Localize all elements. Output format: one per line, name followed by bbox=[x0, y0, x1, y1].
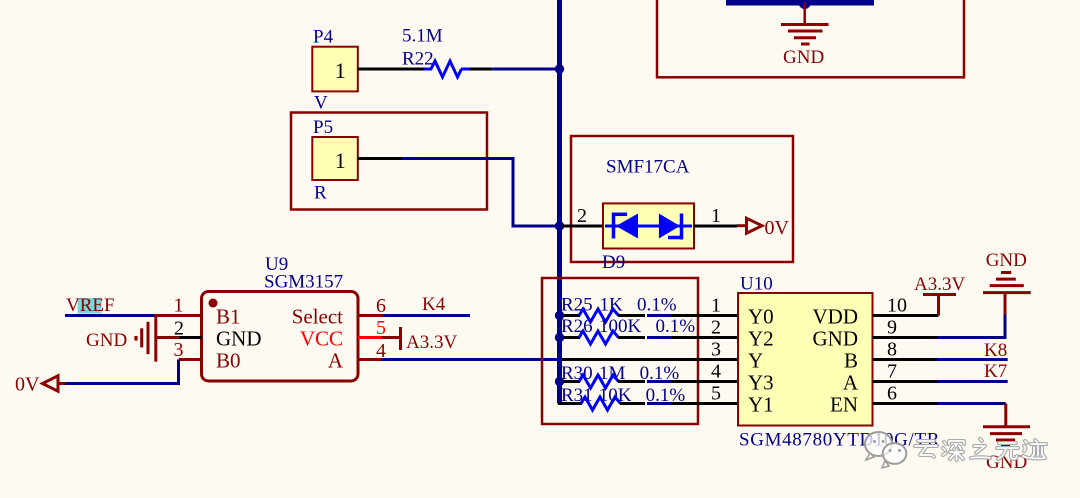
watermark logo bbox=[865, 432, 906, 468]
svg-text:3: 3 bbox=[174, 339, 184, 361]
power port A3.3V bbox=[914, 274, 965, 316]
pin 6 U9 bbox=[358, 314, 383, 317]
pin 6 U10 bbox=[873, 402, 938, 405]
ground GND bottom right bbox=[983, 404, 1030, 473]
svg-text:R: R bbox=[314, 183, 327, 204]
svg-text:SGM3157: SGM3157 bbox=[264, 272, 343, 293]
wire pin3 to 0V bbox=[64, 360, 179, 384]
pin 10 U10 bbox=[873, 314, 939, 317]
IC U9 SGM3157 bbox=[202, 254, 359, 381]
svg-text:B1: B1 bbox=[216, 305, 241, 329]
svg-text:SGM48780YTD10G/TR: SGM48780YTD10G/TR bbox=[739, 430, 940, 451]
svg-text:0V: 0V bbox=[15, 374, 40, 396]
power port 0V left bbox=[15, 374, 66, 396]
svg-text:R22: R22 bbox=[402, 48, 434, 69]
connector P5 bbox=[312, 117, 358, 204]
svg-text:A3.3V: A3.3V bbox=[914, 274, 965, 295]
region box P5 bbox=[291, 113, 487, 210]
resistor R22 5.1M bbox=[402, 26, 470, 77]
connector P4 bbox=[312, 27, 358, 114]
P4 body bbox=[312, 47, 358, 92]
U10 body bbox=[738, 293, 873, 426]
resistor R31 10K bbox=[558, 385, 738, 410]
svg-text:5: 5 bbox=[376, 317, 386, 339]
node junction bus/R22 bbox=[555, 64, 564, 73]
svg-text:B: B bbox=[844, 349, 858, 373]
svg-text:A: A bbox=[328, 349, 344, 373]
IC U10 SGM48780 bbox=[738, 274, 940, 451]
svg-text:GND: GND bbox=[986, 250, 1027, 271]
svg-text:2: 2 bbox=[711, 317, 721, 339]
svg-text:5.1M: 5.1M bbox=[402, 26, 443, 47]
P5 body bbox=[312, 137, 358, 180]
svg-text:Y2: Y2 bbox=[748, 327, 774, 351]
node junction top bbox=[799, 0, 811, 9]
svg-text:R26: R26 bbox=[561, 316, 593, 337]
svg-text:B0: B0 bbox=[216, 349, 241, 373]
svg-text:9: 9 bbox=[887, 317, 897, 339]
svg-text:0V: 0V bbox=[765, 217, 790, 239]
pin numbers U10 left bbox=[711, 295, 721, 405]
svg-text:GND: GND bbox=[86, 330, 127, 351]
svg-text:2: 2 bbox=[174, 317, 184, 339]
wire net K7 bbox=[937, 380, 1008, 383]
wire pin 2 bbox=[562, 225, 603, 228]
pin 1 marker dot bbox=[209, 299, 218, 308]
svg-text:Y0: Y0 bbox=[748, 305, 774, 329]
pin 1 U9 bbox=[156, 314, 202, 317]
svg-text:K8: K8 bbox=[984, 340, 1007, 361]
svg-text:K7: K7 bbox=[984, 361, 1007, 382]
power port 0V right bbox=[737, 217, 790, 239]
svg-text:R25: R25 bbox=[561, 294, 593, 315]
pin 7 U10 bbox=[873, 380, 938, 383]
svg-text:Y: Y bbox=[748, 349, 763, 373]
svg-text:1: 1 bbox=[335, 148, 346, 173]
net label VREF bbox=[66, 295, 115, 316]
svg-text:6: 6 bbox=[376, 295, 386, 317]
resistor R30 1M bbox=[555, 363, 738, 388]
wire pin 9 to GND bbox=[937, 314, 1005, 338]
wire net K8 bbox=[937, 358, 1008, 361]
resistor R26 100K bbox=[555, 316, 738, 344]
wire P4 to R22 bbox=[358, 68, 424, 71]
svg-text:VREF: VREF bbox=[66, 295, 115, 316]
svg-text:3: 3 bbox=[711, 339, 721, 361]
selection highlight bbox=[78, 298, 102, 314]
svg-text:A: A bbox=[843, 371, 859, 395]
svg-text:1: 1 bbox=[711, 295, 721, 317]
ground GND left (rotated) bbox=[86, 314, 156, 361]
power port A3.3V bbox=[401, 327, 458, 353]
svg-text:V: V bbox=[314, 93, 328, 114]
svg-text:GND: GND bbox=[986, 452, 1027, 473]
region box resistors bbox=[542, 278, 698, 424]
svg-text:Y1: Y1 bbox=[748, 393, 774, 417]
svg-text:5: 5 bbox=[711, 383, 721, 405]
node junction bus/P5 bbox=[555, 221, 564, 230]
svg-text:P4: P4 bbox=[313, 27, 334, 48]
U9 body bbox=[202, 292, 359, 382]
pin 9 U10 bbox=[873, 336, 938, 339]
diode D9 SMF17CA bbox=[562, 157, 737, 273]
svg-text:1: 1 bbox=[711, 205, 721, 227]
resistor R25 1K bbox=[555, 294, 738, 322]
wire pin 1 bbox=[694, 225, 737, 228]
svg-text:7: 7 bbox=[887, 361, 897, 383]
svg-text:SMF17CA: SMF17CA bbox=[606, 157, 690, 178]
svg-text:10: 10 bbox=[887, 295, 907, 317]
svg-text:6: 6 bbox=[887, 383, 897, 405]
svg-text:K4: K4 bbox=[422, 294, 446, 315]
svg-text:1: 1 bbox=[335, 58, 346, 83]
region box top right bbox=[657, 0, 964, 77]
svg-text:U10: U10 bbox=[740, 274, 773, 295]
svg-text:VDD: VDD bbox=[813, 305, 859, 329]
wire net K4 bbox=[383, 314, 470, 317]
wire top thick net bbox=[726, 0, 874, 6]
region box SMF17CA bbox=[571, 136, 793, 262]
pin 3 U9 bbox=[179, 358, 202, 361]
wire R22 to bus bbox=[470, 68, 492, 71]
wire VREF bbox=[65, 314, 156, 317]
svg-text:4: 4 bbox=[711, 361, 721, 383]
svg-text:EN: EN bbox=[830, 393, 858, 417]
svg-text:8: 8 bbox=[887, 339, 897, 361]
ground GND top bbox=[781, 3, 829, 69]
svg-text:Select: Select bbox=[292, 305, 343, 329]
svg-text:GND: GND bbox=[783, 47, 824, 68]
svg-text:VCC: VCC bbox=[300, 327, 343, 351]
wire pin 6 to GND bbox=[937, 402, 1006, 405]
svg-text:100K 0.1%: 100K 0.1% bbox=[599, 316, 695, 337]
pin 2 U9 bbox=[156, 336, 179, 339]
wire vertical bus net V bbox=[557, 0, 562, 404]
svg-text:Y3: Y3 bbox=[748, 371, 774, 395]
pin 5 U9 bbox=[358, 336, 381, 339]
svg-text:1: 1 bbox=[174, 295, 184, 317]
svg-text:GND: GND bbox=[216, 327, 262, 351]
wire net A to Y bbox=[381, 358, 562, 361]
svg-text:2: 2 bbox=[577, 205, 587, 227]
svg-text:D9: D9 bbox=[602, 252, 625, 273]
pin 8 U10 bbox=[873, 358, 938, 361]
watermark text 云深之无迹 bbox=[915, 439, 1046, 460]
svg-text:GND: GND bbox=[813, 327, 859, 351]
wire P5 to bus bbox=[358, 157, 402, 160]
svg-text:A3.3V: A3.3V bbox=[406, 332, 457, 353]
wire row 3 (A to Y) bbox=[562, 358, 738, 361]
pin 4 U9 bbox=[358, 358, 381, 361]
ground GND top right (inverted) bbox=[983, 250, 1031, 315]
svg-text:P5: P5 bbox=[313, 117, 333, 138]
